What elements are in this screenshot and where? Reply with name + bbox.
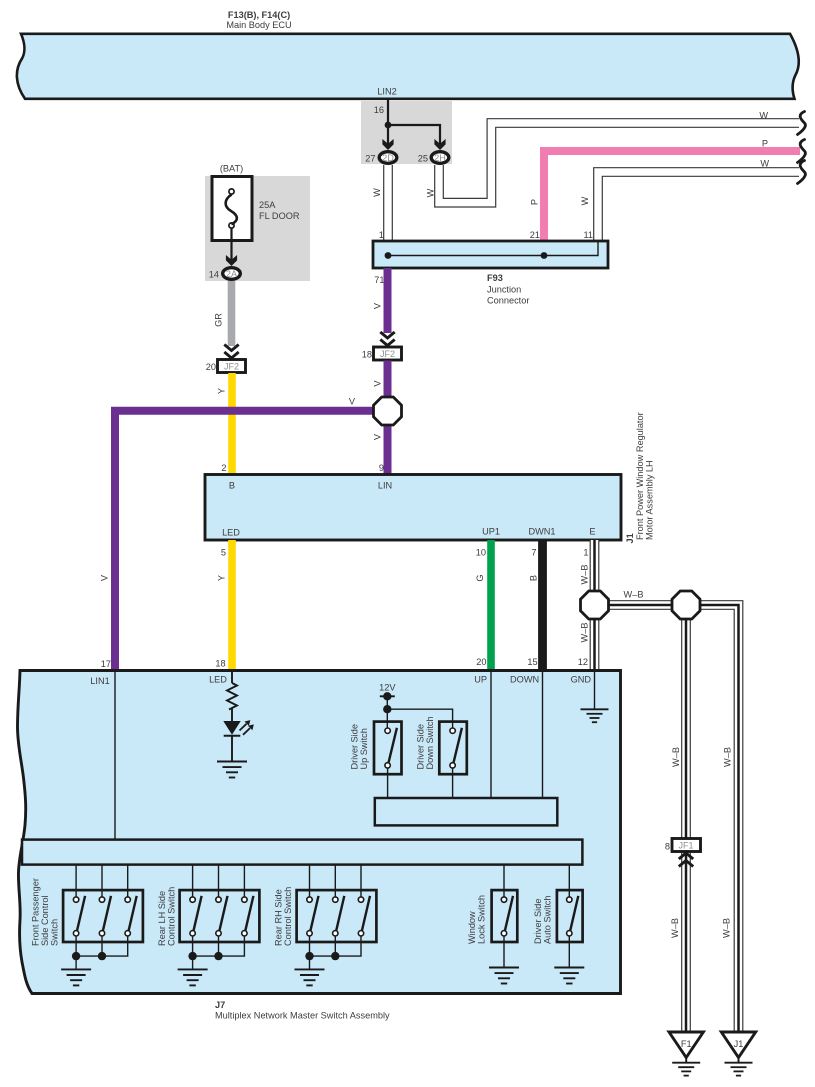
arrow into JF2 pin 20 <box>224 345 238 359</box>
svg-text:GR: GR <box>214 313 224 327</box>
svg-text:Junction: Junction <box>487 285 521 295</box>
arrow up into JF1 <box>679 853 693 867</box>
junction connector F93 <box>373 230 608 306</box>
svg-text:V: V <box>100 574 110 581</box>
svg-text:J1: J1 <box>625 533 635 543</box>
svg-text:W–B: W–B <box>670 918 680 938</box>
svg-text:E: E <box>589 527 595 537</box>
break symbol wire W lower <box>798 161 806 184</box>
svg-text:11: 11 <box>583 230 593 240</box>
junction dot pin16 <box>385 122 392 129</box>
wire V purple branch from octagon to J7 LIN1 <box>100 397 382 671</box>
junction JF1 pin 8 <box>665 839 701 852</box>
svg-text:Switch: Switch <box>50 919 60 946</box>
svg-text:Y: Y <box>217 575 227 581</box>
svg-text:15: 15 <box>527 657 537 667</box>
connector 2H pin 25 <box>418 152 449 164</box>
shield box around fuse <box>205 176 310 281</box>
svg-text:V: V <box>349 397 356 407</box>
connector 2D pin 27 <box>365 152 397 164</box>
svg-text:Down Switch: Down Switch <box>425 716 435 769</box>
svg-text:Up Switch: Up Switch <box>359 728 369 769</box>
octagon junction W-B left <box>581 591 609 619</box>
svg-text:W–B: W–B <box>671 747 681 767</box>
svg-text:W–B: W–B <box>579 623 589 643</box>
svg-text:LED: LED <box>209 675 227 685</box>
svg-text:F1: F1 <box>681 1039 692 1049</box>
svg-text:B: B <box>229 481 235 491</box>
wire W from 2D to F93 pin 1 <box>372 165 388 241</box>
wire Y yellow JF2 to motor pin 2 <box>217 373 232 474</box>
svg-text:DOWN: DOWN <box>510 675 539 685</box>
ECU F13/F14 Main Body ECU block <box>17 10 799 99</box>
svg-text:JF1: JF1 <box>678 841 693 851</box>
svg-text:W: W <box>580 196 590 205</box>
svg-text:Driver Side: Driver Side <box>533 899 543 944</box>
front passenger side control switch <box>31 865 143 986</box>
svg-text:V: V <box>373 433 383 440</box>
svg-text:Multiplex Network Master Switc: Multiplex Network Master Switch Assembly <box>215 1011 390 1021</box>
svg-text:5: 5 <box>221 548 226 558</box>
svg-text:W–B: W–B <box>579 565 589 585</box>
svg-text:Control Switch: Control Switch <box>283 887 293 946</box>
svg-text:1: 1 <box>379 230 384 240</box>
svg-text:2A: 2A <box>226 269 238 279</box>
svg-text:F13(B), F14(C): F13(B), F14(C) <box>228 10 290 20</box>
ground below LED <box>217 762 247 778</box>
triangle ground F1 <box>669 1032 703 1076</box>
svg-text:Rear LH Side: Rear LH Side <box>157 891 167 946</box>
svg-text:Auto Switch: Auto Switch <box>543 895 553 944</box>
junction JF2 pin 20 <box>206 360 246 373</box>
svg-text:UP1: UP1 <box>482 527 500 537</box>
svg-text:W: W <box>372 188 382 197</box>
small bus rectangle <box>375 798 558 825</box>
svg-text:25: 25 <box>418 154 428 164</box>
svg-text:LIN1: LIN1 <box>90 676 109 686</box>
wire GND internal to ground <box>594 672 596 709</box>
driver side up switch <box>350 722 402 798</box>
wire P pink from right edge to F93 pin 21 <box>530 139 801 242</box>
break symbol wire P <box>798 140 806 163</box>
svg-text:V: V <box>373 302 383 309</box>
svg-text:W–B: W–B <box>723 747 733 767</box>
arrow into 2D <box>382 139 393 150</box>
wire W-B from octagon2 right then down to triangle J1 <box>692 605 739 1032</box>
svg-text:JF2: JF2 <box>380 349 395 359</box>
svg-text:LED: LED <box>222 528 240 538</box>
svg-text:B: B <box>529 575 539 581</box>
svg-text:Motor Assembly LH: Motor Assembly LH <box>645 460 655 540</box>
svg-text:8: 8 <box>665 842 670 852</box>
svg-text:1: 1 <box>583 548 588 558</box>
arrow into 2A <box>226 255 237 266</box>
svg-text:Y: Y <box>217 388 227 394</box>
shield box around 2D/2H connectors <box>361 101 452 164</box>
svg-text:Driver Side: Driver Side <box>350 724 360 769</box>
svg-text:GND: GND <box>571 675 592 685</box>
svg-text:P: P <box>530 199 540 205</box>
svg-text:Driver Side: Driver Side <box>416 724 426 769</box>
wire V purple F93 pin71 to JF2 18 <box>373 268 388 333</box>
svg-text:W: W <box>760 159 769 169</box>
svg-text:17: 17 <box>101 659 111 669</box>
svg-text:12: 12 <box>578 657 588 667</box>
wire W from 2H to right edge <box>426 111 800 203</box>
wire DOWN internal to small bus <box>542 672 544 798</box>
svg-text:18: 18 <box>362 350 372 360</box>
wire UP internal to small bus <box>490 672 492 798</box>
multiplex switch assembly J7 box <box>18 659 621 1021</box>
svg-text:14: 14 <box>209 270 219 280</box>
svg-text:12V: 12V <box>379 683 396 693</box>
svg-text:JF2: JF2 <box>224 362 239 372</box>
rear LH side control switch <box>157 865 259 986</box>
ground GND pin12 <box>581 709 609 722</box>
svg-text:18: 18 <box>215 659 225 669</box>
wire G green motor pin10 to J7 pin20 <box>475 540 491 670</box>
LED D1 <box>223 720 254 761</box>
svg-text:W–B: W–B <box>624 590 644 600</box>
svg-text:Front Passenger: Front Passenger <box>31 878 41 946</box>
svg-text:27: 27 <box>365 154 375 164</box>
svg-text:DWN1: DWN1 <box>528 527 555 537</box>
wire B black motor pin7 to J7 pin15 <box>527 540 542 670</box>
fuse 25A FL DOOR <box>212 164 300 241</box>
wire GR gray from 2A to JF2 <box>214 281 232 346</box>
wire W-B motor pin1(E) through octagon to J7 pin12 <box>578 540 595 670</box>
svg-text:Main Body ECU: Main Body ECU <box>226 20 291 30</box>
arrow into 2H <box>434 139 445 150</box>
svg-text:LIN2: LIN2 <box>377 87 396 97</box>
wire Y yellow motor pin5 to J7 pin18 <box>215 540 232 670</box>
wire from fuse to 2A <box>230 228 232 262</box>
svg-text:10: 10 <box>476 548 486 558</box>
svg-text:Control Switch: Control Switch <box>167 887 177 946</box>
wire 12V to down switch <box>387 709 452 730</box>
svg-text:V: V <box>373 380 383 387</box>
svg-text:Front Power Window Regulator: Front Power Window Regulator <box>635 412 645 540</box>
octagon junction V <box>374 397 402 425</box>
pin 16 wire from ECU <box>388 98 440 146</box>
window lock switch <box>467 865 519 984</box>
wire W from right edge to F93 pin 11 <box>580 159 799 242</box>
wire W-B from octagon2 down to JF1 and triangle F1 <box>670 612 686 1032</box>
triangle ground J1 <box>721 1032 755 1076</box>
svg-text:LIN: LIN <box>378 481 392 491</box>
wire W-B between octagons <box>601 590 680 606</box>
driver side down switch <box>416 716 467 798</box>
svg-text:Lock Switch: Lock Switch <box>477 895 487 944</box>
svg-text:Side Control: Side Control <box>40 895 50 946</box>
svg-text:J7: J7 <box>215 1000 225 1010</box>
wire V purple JF2-18 to octagon to motor pin 9 <box>373 361 388 475</box>
svg-text:(BAT): (BAT) <box>220 164 243 174</box>
svg-text:7: 7 <box>531 548 536 558</box>
svg-text:9: 9 <box>379 463 384 473</box>
svg-text:FL DOOR: FL DOOR <box>259 211 300 221</box>
svg-text:W: W <box>426 188 436 197</box>
svg-text:J1: J1 <box>734 1039 744 1049</box>
svg-text:2H: 2H <box>434 153 446 163</box>
svg-text:G: G <box>475 574 485 581</box>
junction dot 12V branch <box>383 705 391 713</box>
svg-text:F93: F93 <box>487 273 503 283</box>
junction JF2 pin 18 <box>362 347 402 360</box>
long bus bar <box>22 840 582 865</box>
driver side auto switch <box>533 865 584 984</box>
arrow into JF2 pin 18 <box>380 332 394 346</box>
12V supply tap <box>379 683 396 731</box>
svg-text:20: 20 <box>476 657 486 667</box>
svg-text:Window: Window <box>467 911 477 944</box>
svg-text:Rear RH Side: Rear RH Side <box>274 889 284 946</box>
svg-text:UP: UP <box>474 675 487 685</box>
svg-text:W: W <box>759 111 768 121</box>
svg-text:2: 2 <box>221 463 226 473</box>
resistor for LED <box>227 672 237 721</box>
connector 2A pin 14 <box>209 268 241 280</box>
svg-text:P: P <box>762 139 768 149</box>
rear RH side control switch <box>274 865 377 986</box>
svg-text:16: 16 <box>374 105 384 115</box>
wire LIN1 internal to bus bar <box>114 672 116 839</box>
svg-text:71: 71 <box>374 275 384 285</box>
svg-text:21: 21 <box>530 230 540 240</box>
octagon junction W-B right <box>672 591 700 619</box>
svg-text:Connector: Connector <box>487 296 529 306</box>
svg-text:25A: 25A <box>259 200 276 210</box>
break symbol wire W top <box>798 112 806 135</box>
svg-text:W–B: W–B <box>722 918 732 938</box>
svg-text:20: 20 <box>206 362 216 372</box>
motor assembly J1 box <box>205 412 655 543</box>
svg-text:2D: 2D <box>382 153 394 163</box>
